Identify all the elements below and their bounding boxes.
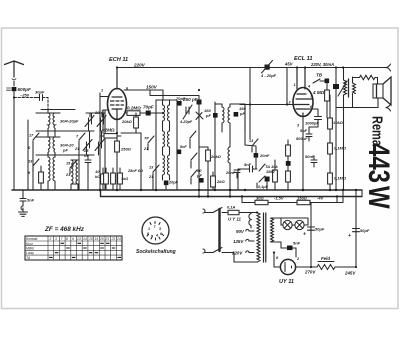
switch TP IFT1 low [153, 153, 197, 184]
svg-text:20nF: 20nF [225, 170, 236, 175]
svg-text:1kΩ: 1kΩ [121, 177, 128, 181]
svg-text:8: 8 [66, 237, 68, 241]
svg-text:ZF = 468 kHz: ZF = 468 kHz [44, 226, 85, 233]
svg-text:1: 1 [101, 89, 103, 93]
svg-text:0,2MΩ: 0,2MΩ [127, 106, 141, 111]
capacitor 70pF IFT1 [177, 101, 182, 106]
capacitor 25nF [85, 155, 91, 190]
svg-text:kΩ: kΩ [95, 174, 101, 179]
svg-text:70pF: 70pF [176, 96, 186, 101]
svg-text:U Y 11: U Y 11 [228, 217, 241, 222]
svg-text:2: 2 [49, 237, 52, 241]
transformer T power core [264, 213, 266, 262]
coil IFT1 secondary bottom [163, 128, 170, 180]
wire AF to ECL grid [240, 105, 294, 140]
svg-text:443: 443 [362, 143, 396, 183]
wire x330 rail [329, 95, 331, 115]
wire osc loop verticals [250, 68, 287, 105]
wire mid rail x199 [150, 90, 199, 197]
svg-text:90V: 90V [236, 229, 245, 234]
transformer T power secondary [271, 218, 282, 242]
svg-text:14: 14 [83, 237, 87, 241]
capacitor 20pF blob IFT1 [164, 181, 169, 186]
capacitor 5nF ground [20, 190, 26, 206]
connector crowfoot bottom [386, 104, 391, 111]
svg-text:50nF: 50nF [305, 154, 315, 159]
svg-text:Kurz: Kurz [26, 242, 33, 246]
switch mains top [213, 208, 227, 213]
resistor 30ohm bias [255, 200, 268, 204]
svg-text:21: 21 [148, 175, 153, 179]
IFT1 frame [156, 100, 177, 162]
trimmer 4-20pF IFT1 [183, 105, 192, 119]
coil IFT2 primary [215, 102, 224, 132]
capacitor 50uF b [353, 229, 360, 232]
svg-text:21: 21 [65, 173, 70, 177]
trimmer C4 [95, 131, 104, 155]
svg-text:5nF: 5nF [27, 198, 35, 203]
coil L7 osc primary [71, 160, 73, 190]
wire dashed to coil block [43, 98, 49, 111]
coil L2 antenna secondary [53, 113, 55, 137]
wire coil mid rails [36, 131, 94, 155]
lamp dial 2 [281, 218, 308, 230]
IFT2 frame [215, 104, 245, 132]
resistor 150ohm bias [297, 200, 310, 204]
tube ECH11 electrodes [111, 68, 124, 120]
wire 220V rail [117, 67, 386, 69]
svg-text:+: + [303, 232, 306, 238]
capacitor 5nF psu [287, 246, 293, 251]
tube ECH11 envelope [108, 89, 127, 120]
svg-text:Sockelschaltung: Sockelschaltung [136, 249, 176, 255]
svg-text:3: 3 [159, 227, 161, 231]
svg-text:21: 21 [143, 147, 148, 151]
resistor AF chain lower [286, 171, 291, 182]
switch TP IFT1 [148, 131, 196, 150]
resistor 0,2M horizontal [127, 111, 163, 116]
connector crowfoot top [386, 64, 391, 71]
svg-text:0,1MΩ: 0,1MΩ [334, 146, 347, 151]
svg-text:-4V: -4V [317, 196, 324, 201]
capacitor 5nF IFT1 [177, 150, 182, 155]
table text [26, 237, 121, 260]
wire dashed alt antenna tap [14, 97, 36, 99]
svg-text:25nF 6Ω: 25nF 6Ω [127, 169, 143, 173]
socket circle [142, 217, 169, 244]
resistor AF chain upper [286, 145, 291, 156]
resistor 1k small b [111, 168, 116, 190]
wire ECL cathode down [302, 117, 304, 191]
wire psu cap link [281, 242, 296, 257]
svg-text:≈2MΩ: ≈2MΩ [102, 128, 115, 133]
table band switch [25, 236, 122, 260]
switch mains link [218, 209, 220, 251]
svg-text:Kontakt: Kontakt [26, 237, 39, 241]
coil IFT1 primary bottom [163, 128, 165, 152]
svg-text:70pF: 70pF [143, 105, 154, 110]
svg-text:6: 6 [72, 237, 74, 241]
svg-text:21: 21 [74, 147, 79, 151]
wire bus right rail [361, 190, 363, 197]
svg-text:5nF: 5nF [180, 145, 187, 149]
heater UY11 arcs [249, 213, 251, 229]
capacitor AF chain blob [286, 161, 291, 166]
wire bias line [242, 190, 343, 203]
switch S2 [79, 133, 85, 190]
wire coil top rail [36, 110, 105, 118]
resistor 0,1M vertical b [328, 173, 333, 190]
wire ECH anode to IFT1 [124, 90, 163, 100]
svg-text:500μF: 500μF [296, 136, 308, 141]
svg-text:Lang: Lang [26, 251, 34, 255]
coil L4 MW secondary [53, 137, 55, 157]
svg-text:2kΩ: 2kΩ [216, 179, 225, 184]
svg-text:19: 19 [95, 237, 99, 241]
resistor 2M grid leak [100, 134, 121, 138]
switch TB [313, 79, 326, 83]
resistor R block b [101, 168, 106, 190]
wire det links [238, 145, 267, 190]
resistor 10k vertical [328, 115, 333, 143]
svg-text:15: 15 [89, 237, 93, 241]
coil IFT1 primary top [163, 100, 165, 128]
svg-text:4: 4 [155, 234, 158, 238]
svg-text:pF: pF [62, 148, 68, 153]
transformer T out tap diagonal [338, 81, 347, 96]
svg-text:pF: pF [196, 173, 202, 178]
capacitor 160pF right [234, 112, 239, 117]
svg-text:245V: 245V [344, 271, 356, 276]
svg-text:Mittel: Mittel [26, 247, 34, 251]
svg-text:TB: TB [316, 73, 323, 78]
trimmer 4-20pF osc [262, 61, 273, 74]
capacitor 50pF blob [199, 178, 204, 183]
wire mains terminal bottom [203, 249, 213, 253]
coil L1 antenna primary [48, 113, 50, 137]
table marks [49, 243, 121, 257]
wire ECH cathode down [116, 120, 118, 142]
coil L5 LW primary [48, 157, 50, 190]
svg-text:pF: pF [205, 113, 211, 118]
switch TA [257, 164, 265, 188]
resistor Feld field coil [311, 265, 356, 270]
ground [19, 206, 28, 216]
svg-text:23: 23 [111, 237, 116, 241]
resistor 1k small c [118, 168, 123, 190]
svg-text:20: 20 [99, 237, 104, 241]
svg-text:13: 13 [77, 237, 81, 241]
svg-text:4 MΩ: 4 MΩ [312, 90, 325, 95]
svg-text:TP: TP [144, 137, 149, 141]
capacitor 1000pF [309, 109, 322, 131]
capacitor 50uF a [308, 227, 315, 230]
wire mid h133 [100, 93, 141, 190]
trimmer mid x199 [196, 112, 203, 120]
switch S4 [70, 161, 76, 174]
svg-text:8: 8 [147, 232, 149, 236]
socket pins [147, 222, 164, 241]
trimmer C2 [97, 113, 106, 131]
capacitor 30pF [36, 95, 43, 101]
svg-text:500pF: 500pF [18, 87, 31, 92]
capacitor 20nF blob det [254, 153, 259, 158]
coil IFT2 secondary [228, 104, 245, 132]
speaker [373, 77, 391, 105]
wire osc coil top [71, 160, 78, 184]
fuse 0,1A [228, 210, 257, 214]
wire feld underline [318, 261, 334, 263]
svg-text:50μF: 50μF [315, 227, 325, 232]
svg-text:ECH 11: ECH 11 [109, 57, 128, 63]
svg-text:pF: pF [239, 111, 245, 116]
svg-text:20nF: 20nF [259, 153, 270, 158]
tube UY11 envelope [280, 259, 295, 274]
wire AF chain x288 [287, 140, 289, 190]
svg-text:50μF: 50μF [360, 228, 370, 233]
resistor 4M vertical [325, 83, 330, 118]
resistor 2k det vertical [211, 172, 216, 190]
tube ECL11 envelope [293, 88, 313, 117]
svg-text:UY 11: UY 11 [279, 279, 294, 285]
switch mains bottom [213, 248, 257, 263]
wire ground bus main [12, 189, 362, 191]
resistor R block a [39, 166, 44, 190]
resistor 1k small a [104, 168, 109, 190]
svg-text:0,1A: 0,1A [227, 205, 236, 210]
capacitor 70pF blob [146, 111, 151, 116]
svg-text:3: 3 [55, 237, 57, 241]
capacitor 5nF TA [246, 166, 257, 172]
wire IFT2 verticals [215, 104, 245, 190]
wire speaker bottom [353, 98, 379, 108]
node coil block top [28, 110, 105, 190]
lamp dial 1 [281, 218, 295, 230]
capacitor 50nF [311, 156, 317, 167]
svg-text:10kΩ: 10kΩ [333, 120, 344, 125]
resistor 250 ohm vertical [115, 141, 120, 190]
svg-text:7: 7 [61, 237, 63, 241]
svg-text:1000pF: 1000pF [305, 121, 319, 126]
transformer T out secondary [353, 77, 356, 108]
transformer T out core [348, 79, 350, 97]
switch det [252, 139, 258, 152]
svg-text:30: 30 [95, 110, 100, 115]
switch S3 [33, 159, 39, 172]
svg-text:30Ω: 30Ω [256, 196, 264, 201]
capacitor 160pF left [213, 113, 218, 118]
coil IFT1 secondary top [168, 100, 170, 128]
transformer T power tap 125V [246, 239, 254, 241]
svg-text:W: W [362, 186, 396, 209]
wire mains terminal top [203, 209, 213, 213]
coil L6 LW secondary [53, 157, 55, 190]
coil L3 MW primary [48, 137, 50, 157]
capacitor 5nF x336 [333, 84, 339, 89]
svg-text:0,1μF: 0,1μF [258, 185, 269, 189]
svg-text:20kΩ: 20kΩ [121, 119, 133, 124]
transformer T power primary [257, 213, 260, 263]
svg-text:4-20pF: 4-20pF [179, 120, 193, 124]
resistor hum coil [353, 75, 378, 84]
wire IFT1 bottom stubs [153, 162, 177, 190]
svg-text:270V: 270V [304, 270, 316, 275]
wire ground bus second [101, 190, 363, 197]
wire 270V rail [310, 203, 312, 268]
svg-text:24: 24 [116, 237, 121, 241]
coil IFT2 lower [228, 132, 230, 197]
tube UY11 electrodes [274, 253, 311, 272]
svg-text:~250: ~250 [20, 93, 30, 98]
svg-text:125V: 125V [233, 239, 244, 244]
svg-text:5nF: 5nF [244, 162, 252, 167]
resistor 20k vertical [134, 113, 139, 133]
tube ECL11 electrodes [294, 68, 312, 117]
svg-text:45V: 45V [284, 62, 294, 67]
capacitor blob TA2 [265, 177, 270, 182]
svg-text:20kΩ: 20kΩ [210, 154, 222, 159]
svg-text:21: 21 [105, 237, 110, 241]
wire antenna to bus [13, 92, 15, 191]
coil L8 osc secondary [76, 160, 78, 190]
svg-text:30/4-20pF: 30/4-20pF [60, 119, 79, 124]
transformer T power tap 90V [246, 229, 254, 231]
capacitor 250pF blob [197, 100, 202, 105]
svg-text:+: + [348, 233, 351, 239]
svg-text:5nF: 5nF [300, 128, 308, 133]
svg-text:0,1MΩ: 0,1MΩ [334, 176, 347, 181]
trimmer C1 [85, 113, 94, 131]
capacitor 20nF det [234, 170, 240, 178]
svg-text:220V, 30mA: 220V, 30mA [310, 62, 334, 67]
capacitor TB blob [325, 79, 330, 84]
transformer T out primary [344, 68, 347, 191]
svg-text:30pF: 30pF [35, 90, 45, 95]
capacitor 5nF ecl [306, 130, 312, 141]
wire ECH grid left [100, 97, 109, 134]
potentiometer 1M [273, 160, 278, 190]
svg-text:150V: 150V [146, 85, 158, 90]
capacitor 500pF [7, 87, 17, 91]
antenna [5, 61, 24, 80]
resistor 0,1M vertical a [328, 143, 333, 173]
svg-text:1: 1 [148, 227, 150, 231]
svg-text:4 - 20pF: 4 - 20pF [260, 73, 277, 78]
svg-text:nF: nF [84, 153, 89, 158]
svg-text:20pF: 20pF [168, 181, 179, 185]
wire ECH triode anode [126, 112, 127, 114]
nameplate Rema [362, 116, 396, 209]
svg-text:250Ω: 250Ω [120, 147, 132, 152]
wire lower output line [336, 107, 353, 109]
svg-text:1: 1 [294, 83, 296, 87]
wire x336 rail [335, 68, 337, 191]
switch S1 [33, 133, 39, 190]
svg-text:ECL 11: ECL 11 [294, 56, 312, 62]
svg-text:Feld: Feld [321, 256, 330, 261]
svg-text:220V: 220V [133, 63, 146, 68]
svg-text:1MΩ: 1MΩ [266, 169, 276, 174]
svg-text:150Ω: 150Ω [297, 196, 308, 201]
resistor 20k mid vertical [199, 147, 210, 197]
wire antenna lead [13, 81, 15, 86]
svg-text:-1,5V: -1,5V [274, 196, 284, 201]
trimmer C3 [83, 131, 92, 155]
wire 245V rail [355, 190, 357, 267]
transformer T power tap 220V [246, 251, 254, 253]
svg-text:5nF: 5nF [293, 241, 301, 246]
svg-text:220V: 220V [231, 251, 243, 256]
